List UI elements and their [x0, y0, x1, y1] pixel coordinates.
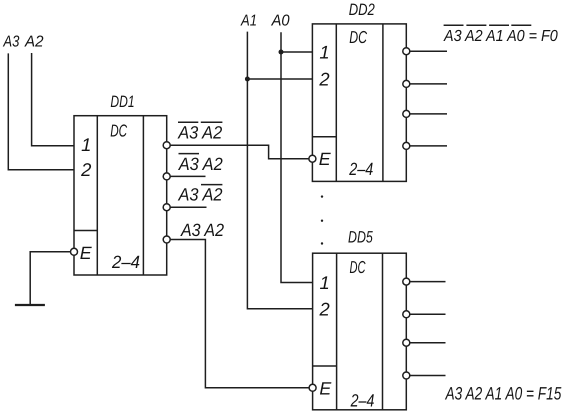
svg-text:2: 2 — [318, 299, 329, 320]
svg-text:2–4: 2–4 — [350, 391, 375, 411]
svg-text:A2: A2 — [24, 33, 44, 50]
wire DD5 output 0 — [410, 281, 446, 283]
node label /A3 A2 — [178, 154, 223, 174]
svg-text:DC: DC — [110, 121, 127, 141]
wire DD5 output 3 — [410, 375, 446, 377]
svg-text:1: 1 — [319, 42, 329, 63]
svg-text:DD5: DD5 — [348, 229, 373, 247]
ground — [15, 304, 45, 306]
svg-text:A1: A1 — [240, 13, 257, 30]
wire DD1 output 3 to DD5 E — [170, 240, 309, 388]
svg-text:E: E — [80, 243, 93, 263]
DD5 output 2 inversion circle — [403, 339, 410, 346]
decoder DD5 box — [313, 253, 407, 410]
svg-text:1: 1 — [319, 272, 329, 293]
DD1 E inversion circle — [71, 248, 78, 255]
wire A3 to DD1 pin 2 — [8, 53, 74, 169]
decoder DD2 box — [312, 24, 406, 182]
DD2 output 0 inversion circle — [403, 48, 410, 55]
wire A2 to DD1 pin 1 — [32, 53, 74, 146]
svg-text:E: E — [319, 378, 332, 398]
DD5 output 1 inversion circle — [403, 311, 410, 318]
wire A0 vertical to DD5 pin 1 — [281, 32, 313, 282]
svg-text:DC: DC — [350, 257, 366, 277]
DD1 output 0 inversion circle — [163, 142, 170, 149]
wire DD5 output 2 — [410, 342, 446, 344]
wire DD2 output 0 — [410, 50, 447, 52]
DD5 output 3 inversion circle — [403, 372, 410, 379]
DD2 E inversion circle — [309, 155, 316, 162]
DD1 output 2 inversion circle — [163, 204, 170, 211]
svg-text:A3 A2: A3 A2 — [178, 185, 223, 205]
decoder DD1 box — [74, 116, 167, 275]
wire DD2 output 3 — [410, 145, 447, 147]
svg-text:DD1: DD1 — [110, 93, 134, 111]
wire DD1 E to ground — [30, 252, 70, 305]
output label /A3 /A2 /A1 /A0 = F0 — [443, 25, 558, 45]
svg-text:2–4: 2–4 — [111, 252, 140, 272]
DD1 output 1 inversion circle — [163, 173, 170, 180]
DD1 output 3 inversion circle — [163, 236, 170, 243]
junction A0 to DD2 pin 1 — [279, 50, 284, 55]
wire DD1 output 1 stub — [170, 175, 205, 177]
wire A1 to DD2 pin 2 — [247, 78, 312, 80]
wire DD1 output 0 to DD2 E — [170, 145, 309, 159]
svg-text:A3 A2: A3 A2 — [177, 123, 222, 143]
svg-text:2: 2 — [318, 69, 329, 90]
wire DD2 output 1 — [410, 83, 447, 85]
svg-text:E: E — [319, 149, 332, 169]
svg-text:A3: A3 — [3, 33, 20, 50]
svg-text:A0: A0 — [271, 13, 290, 30]
wire A0 to DD2 pin 1 — [281, 51, 312, 53]
svg-text:DD2: DD2 — [349, 1, 375, 19]
svg-text:A3 A2: A3 A2 — [180, 220, 224, 240]
DD2 output 2 inversion circle — [403, 110, 410, 117]
svg-text:DC: DC — [349, 27, 367, 47]
node label A3 /A2 — [178, 185, 223, 205]
DD2 output 3 inversion circle — [403, 142, 410, 149]
svg-text:2–4: 2–4 — [348, 159, 373, 179]
svg-text:2: 2 — [80, 159, 91, 180]
svg-text:A3 A2: A3 A2 — [178, 154, 223, 174]
wire DD1 output 2 stub — [170, 206, 206, 208]
DD2 output 1 inversion circle — [403, 80, 410, 87]
DD5 E inversion circle — [309, 384, 316, 391]
DD5 output 0 inversion circle — [403, 278, 410, 285]
wire DD5 output 1 — [410, 313, 446, 315]
svg-text:1: 1 — [81, 134, 91, 155]
junction A1 to DD2 pin 2 — [245, 77, 250, 82]
wire A1 vertical to DD5 pin 2 — [247, 32, 312, 309]
ellipsis dots between DD2 and DD5 — [321, 195, 323, 244]
node label /A3 /A2 — [177, 122, 222, 142]
svg-text:A3 A2 A1 A0 = F0: A3 A2 A1 A0 = F0 — [443, 28, 558, 45]
svg-text:A3 A2 A1 A0 = F15: A3 A2 A1 A0 = F15 — [445, 383, 562, 403]
wire DD2 output 2 — [410, 113, 447, 115]
